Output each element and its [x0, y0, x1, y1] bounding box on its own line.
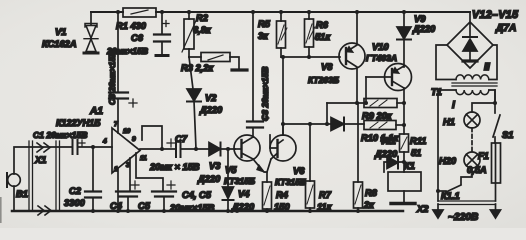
svg-text:V10: V10	[372, 42, 389, 52]
svg-text:Д220: Д220	[412, 24, 436, 34]
diode V4	[223, 149, 256, 212]
diode V3	[197, 143, 221, 185]
wire mains row	[438, 201, 496, 205]
wire A1 feedback hook pin10 to output	[142, 126, 162, 149]
svg-text:S1: S1	[502, 130, 513, 140]
svg-text:К122УН1Б: К122УН1Б	[56, 118, 101, 128]
connector X1	[29, 141, 60, 215]
capacitor C6	[106, 12, 170, 56]
wire V8 collector row	[327, 102, 364, 104]
relay contact К1.1	[438, 168, 472, 201]
svg-text:V9: V9	[414, 14, 426, 24]
diode V7	[331, 118, 344, 131]
capacitor C8	[247, 12, 270, 137]
label C4 C5 value	[169, 190, 215, 213]
transistor Q V6 КТ315Б	[267, 124, 306, 187]
svg-text:R7: R7	[319, 190, 332, 200]
svg-text:2к: 2к	[363, 200, 375, 210]
svg-text:9: 9	[132, 136, 136, 143]
svg-text:Д220: Д220	[231, 202, 255, 212]
svg-text:R11: R11	[410, 136, 426, 146]
microphone B1	[7, 173, 28, 199]
capacitor C5 with pin11 wire	[136, 153, 176, 211]
svg-text:V8: V8	[321, 62, 333, 72]
diode V9	[397, 12, 436, 67]
svg-text:V11: V11	[380, 136, 396, 146]
svg-text:К1.1: К1.1	[441, 191, 460, 201]
svg-text:Н20: Н20	[439, 156, 457, 166]
svg-text:R8: R8	[365, 188, 378, 198]
svg-text:R9 20к: R9 20к	[362, 111, 393, 121]
wire base row V8	[281, 56, 340, 58]
svg-text:0,5А: 0,5А	[467, 165, 487, 175]
svg-text:150: 150	[274, 202, 290, 212]
wire bottom ground bus	[12, 210, 403, 213]
op-amp U1 (А1 К122УН1Б)	[56, 106, 147, 173]
svg-text:R6: R6	[316, 20, 329, 30]
svg-text:V5: V5	[225, 165, 237, 175]
svg-text:А1: А1	[89, 106, 103, 117]
svg-text:С1 20мк×15В: С1 20мк×15В	[33, 130, 87, 140]
svg-text:51: 51	[411, 148, 421, 158]
transformer T1	[431, 45, 497, 111]
diode V11	[374, 136, 415, 172]
wire y124 row with junctions	[283, 103, 364, 124]
svg-text:V2: V2	[205, 93, 217, 103]
svg-text:С4: С4	[110, 201, 123, 211]
svg-text:Д220: Д220	[374, 149, 398, 159]
potentiometer R2	[182, 12, 212, 57]
resistor R11	[400, 134, 427, 158]
svg-text:11: 11	[140, 155, 147, 162]
zener V1	[42, 12, 98, 53]
relay K1 coil	[388, 172, 421, 204]
lamp H2O	[439, 152, 480, 168]
wire dashed link	[471, 128, 473, 152]
svg-text:V4: V4	[238, 189, 250, 199]
capacitor C7	[149, 134, 200, 172]
svg-text:3к: 3к	[258, 31, 269, 41]
label mains	[416, 204, 478, 223]
svg-text:20мк × 15В: 20мк × 15В	[149, 162, 200, 172]
wire A1 output row	[140, 148, 235, 150]
svg-text:КТ203Б: КТ203Б	[308, 75, 339, 85]
svg-text:С7: С7	[175, 134, 188, 144]
svg-text:Х1: Х1	[34, 155, 46, 165]
svg-text:КС162А: КС162А	[42, 39, 77, 49]
svg-text:R5: R5	[258, 19, 271, 29]
svg-text:R2: R2	[196, 13, 209, 23]
switch S1	[493, 90, 513, 143]
terminal arrow left	[433, 204, 443, 218]
svg-text:4: 4	[102, 138, 107, 145]
svg-text:Т1: Т1	[431, 87, 442, 97]
svg-text:V12–V15: V12–V15	[472, 9, 519, 21]
svg-text:С6: С6	[131, 33, 144, 43]
svg-text:С5: С5	[138, 201, 151, 211]
svg-text:Д7А: Д7А	[495, 23, 516, 34]
wire A1 supply column	[117, 12, 119, 133]
svg-text:3300: 3300	[64, 198, 86, 208]
transistor Q V8 КТ203Б	[308, 12, 365, 103]
diode V2	[187, 57, 223, 149]
capacitor C2	[64, 147, 101, 211]
svg-text:В1: В1	[16, 189, 28, 199]
svg-text:6,8к: 6,8к	[193, 25, 212, 35]
capacitor C1	[33, 130, 87, 154]
wire R5 drop to V6 collector	[282, 57, 284, 135]
wire A1 pin1 to ground	[117, 168, 119, 211]
svg-text:С3 20мк×15В: С3 20мк×15В	[107, 51, 117, 105]
resistor R7	[306, 124, 333, 212]
svg-text:Д220: Д220	[199, 105, 223, 115]
wire top supply bus	[91, 11, 470, 13]
svg-text:Х2: Х2	[416, 204, 429, 214]
svg-text:V3: V3	[209, 161, 221, 171]
svg-text:Д220: Д220	[197, 174, 221, 184]
svg-text:С8 20мк×15В: С8 20мк×15В	[260, 67, 270, 121]
resistor R6	[305, 12, 332, 57]
svg-text:V1: V1	[55, 27, 66, 37]
svg-text:КТ315Б: КТ315Б	[224, 176, 255, 186]
capacitor C3	[107, 51, 137, 107]
svg-text:51к: 51к	[315, 32, 331, 42]
svg-text:R4: R4	[276, 190, 289, 200]
resistor R1	[116, 8, 156, 31]
wire B1 top lead	[14, 147, 72, 174]
resistor R3	[181, 53, 247, 74]
svg-text:R3 2,2к: R3 2,2к	[181, 63, 214, 73]
svg-text:ГТ403А: ГТ403А	[366, 53, 397, 63]
svg-text:10: 10	[123, 128, 131, 135]
transistor Q V5 КТ315Б	[224, 135, 267, 186]
resistor R8	[354, 103, 378, 211]
svg-text:11к: 11к	[317, 202, 333, 212]
wire mains left column	[437, 90, 439, 201]
svg-text:7: 7	[114, 121, 118, 128]
resistor R9	[362, 99, 404, 122]
terminal arrow right	[491, 204, 501, 218]
svg-text:V6: V6	[293, 166, 305, 176]
resistor R5	[258, 12, 287, 57]
svg-text:II: II	[484, 62, 490, 73]
lamp H1	[443, 112, 480, 128]
resistor R10	[361, 121, 404, 144]
transistor Q V10 ГТ403А	[366, 42, 412, 134]
svg-text:F1: F1	[478, 151, 489, 161]
fuse F1	[467, 143, 501, 201]
svg-text:С2: С2	[69, 186, 82, 196]
svg-text:20мк×15В: 20мк×15В	[169, 203, 215, 213]
svg-text:Н1: Н1	[443, 117, 455, 127]
svg-text:КТ315Б: КТ315Б	[275, 177, 306, 187]
wire lamp row	[472, 103, 495, 112]
resistor R4	[263, 182, 291, 212]
svg-text:R1 430: R1 430	[116, 21, 147, 31]
rectifier bridge V12-V15 Д7А	[447, 9, 519, 68]
svg-text:С4, С5: С4, С5	[182, 190, 212, 200]
svg-text:I: I	[452, 100, 455, 111]
wire C1 to pin4	[78, 146, 112, 148]
wire B1 bottom lead	[13, 186, 15, 211]
svg-text:~220В: ~220В	[448, 212, 478, 223]
capacitor C4 with pin3 wire	[110, 158, 140, 211]
